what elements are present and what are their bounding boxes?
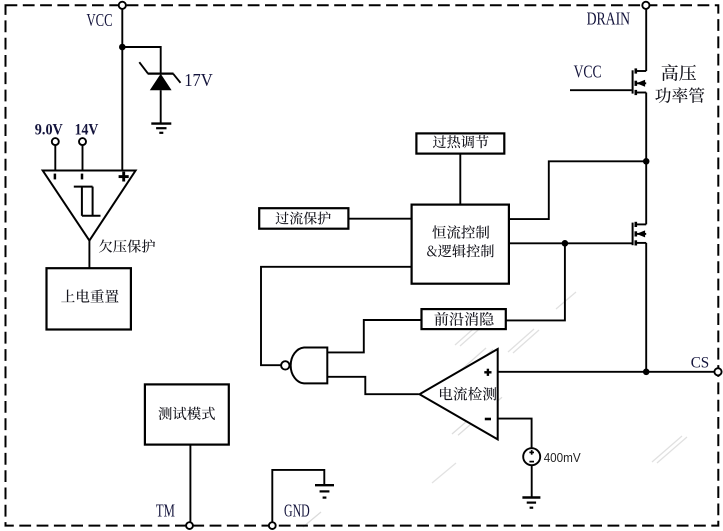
wire control block to NAND output <box>261 267 412 365</box>
terminal 14V <box>79 138 86 145</box>
label 测试模式 <box>158 407 215 420</box>
wire VCC pin to comparator + input <box>121 9 123 171</box>
wire U2 - input to 400mV source <box>498 419 532 449</box>
label 17V <box>184 70 213 90</box>
svg-text:GND: GND <box>284 501 310 521</box>
ground below zener D1 <box>151 124 171 133</box>
label 过热调节 <box>433 135 489 148</box>
wire VCC node to zener D1 <box>122 47 160 73</box>
label 功率管 <box>655 87 704 103</box>
label 上电重置 <box>61 289 118 302</box>
wire overcurrent block to control block <box>348 218 411 220</box>
label VCC (M1 gate) <box>574 61 602 81</box>
source V1 400mV <box>523 448 540 465</box>
wire DRAIN pin to M1 drain <box>645 9 647 72</box>
wire test-mode block to TM pin <box>189 445 191 523</box>
terminal 9.0V <box>52 138 59 145</box>
wire blanking block to gate node <box>506 243 565 320</box>
wire thermal block to control block <box>459 154 461 205</box>
block 过热调节 (thermal regulation) <box>416 133 504 153</box>
wire 14V to comparator <box>82 145 84 170</box>
gate G1 (AND shape, inverted output, mirrored) <box>281 348 327 384</box>
svg-text:17V: 17V <box>184 70 213 90</box>
block 测试模式 (test mode) <box>145 384 229 444</box>
wire control block to M2 gate <box>509 242 632 244</box>
wire control block to M1 source node <box>509 161 645 219</box>
block 前沿消隐 (leading-edge blanking) <box>422 309 506 329</box>
svg-text:TM: TM <box>156 501 175 521</box>
label 电流检测 <box>440 387 496 401</box>
pin VCC terminal <box>119 2 126 9</box>
label VCC (pin) <box>87 10 113 30</box>
zener diode D1 17V <box>139 62 180 123</box>
junction M2 source / CS node <box>643 369 650 376</box>
comparator U1 undervoltage (with hysteresis) <box>43 171 136 241</box>
junction VCC/zener node <box>119 44 126 51</box>
ground symbol below V1 <box>522 498 540 508</box>
wire U1 output to power-on-reset <box>88 240 90 268</box>
label 恒流控制 <box>432 225 489 239</box>
pin GND terminal <box>269 522 276 529</box>
label 高压 <box>662 64 696 81</box>
label TM (pin) <box>156 501 175 521</box>
label 9.0V <box>35 122 64 139</box>
block 过流保护 (overcurrent protection) <box>259 208 348 229</box>
wire GND pin to ground <box>272 470 324 522</box>
label &逻辑控制 <box>427 244 494 257</box>
pin CS terminal <box>714 368 721 375</box>
transistor M1 high-voltage power MOSFET <box>633 68 647 95</box>
label 14V <box>75 122 99 139</box>
label DRAIN (pin) <box>587 9 631 29</box>
svg-text:DRAIN: DRAIN <box>587 9 631 29</box>
wire V1 to ground <box>531 465 533 497</box>
svg-text:9.0V: 9.0V <box>35 122 64 139</box>
ground symbol at GND <box>315 485 334 497</box>
wire VCC to M1 gate <box>570 89 632 91</box>
comparator U2 current sense (points left) <box>420 349 498 439</box>
label 过流保护 <box>276 212 331 225</box>
wire blanking block to NAND input A <box>328 320 422 352</box>
label 400mV <box>544 450 581 465</box>
wire M2 source to CS node <box>645 243 647 372</box>
svg-text:CS: CS <box>691 354 710 371</box>
svg-text:14V: 14V <box>75 122 99 139</box>
label 欠压保护 <box>99 239 155 252</box>
wire U2 + input to CS pin <box>498 371 715 373</box>
wire NAND input B to current comparator output <box>328 377 419 394</box>
svg-text:400mV: 400mV <box>544 450 581 465</box>
junction gate drive node <box>562 240 569 247</box>
svg-text:VCC: VCC <box>87 10 113 30</box>
pin TM terminal <box>186 522 193 529</box>
block 上电重置 (power-on reset) <box>47 268 131 329</box>
wire M1 source to M2 drain <box>645 93 647 225</box>
transistor M2 sense MOSFET <box>633 222 647 246</box>
svg-text:VCC: VCC <box>574 61 602 81</box>
block 恒流控制&逻辑控制 (constant-current & logic control) <box>412 205 509 284</box>
junction M1 source node <box>643 158 650 165</box>
pin DRAIN terminal <box>642 2 649 9</box>
wire 9.0V to comparator <box>54 145 56 170</box>
label CS (pin) <box>691 354 710 371</box>
label GND (pin) <box>284 501 310 521</box>
label 前沿消隐 <box>434 312 493 326</box>
